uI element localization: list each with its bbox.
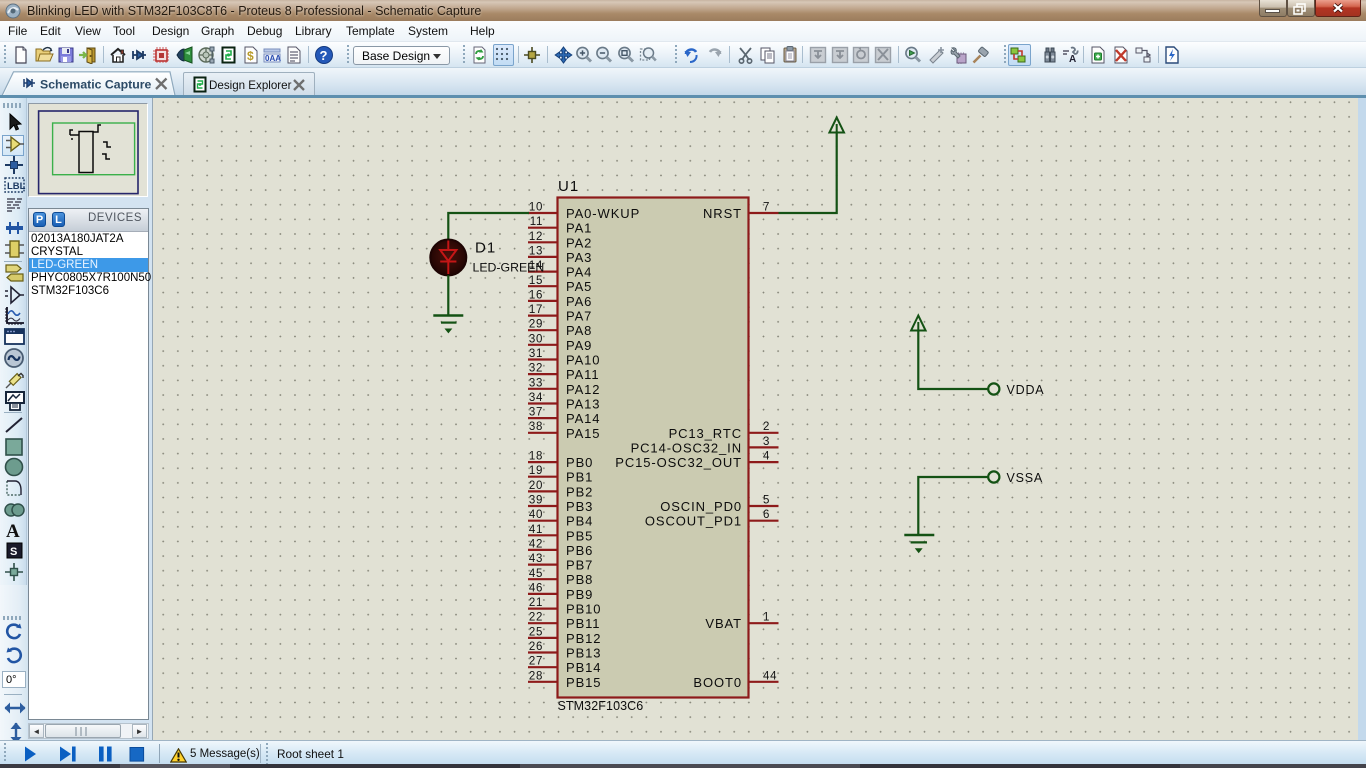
pin 38 PA15 — [528, 421, 600, 441]
svg-text:PA11: PA11 — [566, 367, 599, 382]
pin 43 PB7 — [528, 553, 593, 573]
IC U1 STM32F103C6 body — [558, 198, 749, 698]
svg-text:16: 16 — [529, 289, 543, 301]
svg-text:PA13: PA13 — [566, 397, 600, 412]
svg-text:LED-GREEN: LED-GREEN — [473, 261, 545, 275]
svg-text:PA0-WKUP: PA0-WKUP — [566, 206, 640, 221]
pin 32 PA11 — [528, 363, 599, 383]
pin 39 PB3 — [528, 495, 593, 515]
wire D1 cathode to ground — [447, 275, 449, 315]
IC U1 reference label — [558, 178, 579, 195]
pin 20 PB2 — [528, 480, 593, 500]
svg-text:PB2: PB2 — [566, 484, 593, 499]
svg-text:PB13: PB13 — [566, 646, 601, 661]
svg-text:28: 28 — [529, 670, 543, 682]
pin 37 PA14 — [528, 407, 600, 427]
svg-text:PB0: PB0 — [566, 455, 593, 470]
pin 16 PA6 — [528, 289, 592, 309]
svg-text:$: $ — [247, 49, 254, 63]
svg-text:PA5: PA5 — [566, 279, 592, 294]
svg-text:17: 17 — [529, 304, 543, 316]
svg-text:42: 42 — [529, 538, 543, 550]
pin 41 PB5 — [528, 524, 593, 544]
node label VDDA — [1007, 383, 1045, 397]
LED D1 reference label — [475, 240, 496, 257]
pin 10 PA0-WKUP — [528, 202, 640, 222]
IC U1 value label STM32F103C6 — [558, 699, 644, 713]
svg-text:5: 5 — [763, 495, 770, 507]
svg-text:PA9: PA9 — [566, 338, 592, 353]
pin 11 PA1 — [528, 216, 592, 236]
svg-text:19: 19 — [529, 465, 543, 477]
terminal VSSA — [988, 471, 999, 482]
pin 29 PA8 — [528, 319, 592, 339]
pin 7 NRST — [703, 202, 779, 222]
svg-text:PA6: PA6 — [566, 294, 592, 309]
power symbol at NRST — [829, 118, 844, 133]
svg-text:4: 4 — [763, 451, 770, 463]
svg-text:21: 21 — [529, 597, 543, 609]
svg-text:PB8: PB8 — [566, 572, 593, 587]
pin 31 PA10 — [528, 348, 600, 368]
svg-text:15: 15 — [529, 275, 543, 287]
svg-text:NRST: NRST — [703, 206, 742, 221]
pin 40 PB4 — [528, 509, 593, 529]
svg-text:44: 44 — [763, 670, 777, 682]
LED D1 — [430, 240, 466, 276]
pin 2 PC13_RTC — [669, 421, 779, 441]
svg-text:PB10: PB10 — [566, 602, 601, 617]
svg-text:PB7: PB7 — [566, 558, 593, 573]
wire pin 7 NRST to power symbol — [779, 133, 837, 214]
svg-text:37: 37 — [529, 407, 543, 419]
svg-text:PB6: PB6 — [566, 543, 593, 558]
ground symbol at D1 — [433, 316, 463, 333]
svg-text:41: 41 — [529, 524, 543, 536]
svg-text:A: A — [1069, 54, 1076, 64]
svg-text:PA1: PA1 — [566, 221, 592, 236]
ground symbol at VSSA — [904, 535, 934, 552]
svg-text:PA7: PA7 — [566, 309, 592, 324]
svg-text:22: 22 — [529, 612, 543, 624]
pin 13 PA3 — [528, 245, 592, 265]
pin 42 PB6 — [528, 538, 593, 558]
svg-text:STM32F103C6: STM32F103C6 — [558, 699, 644, 713]
power symbol at VDDA — [911, 316, 926, 331]
pin 46 PB9 — [528, 582, 593, 602]
svg-text:A: A — [6, 521, 20, 541]
svg-text:PC14-OSC32_IN: PC14-OSC32_IN — [631, 440, 742, 455]
svg-text:PC15-OSC32_OUT: PC15-OSC32_OUT — [615, 455, 742, 470]
svg-text:BOOT0: BOOT0 — [693, 675, 742, 690]
svg-text:31: 31 — [529, 348, 543, 360]
svg-text:VDDA: VDDA — [1007, 383, 1045, 397]
svg-text:PA4: PA4 — [566, 265, 592, 280]
svg-text:PB11: PB11 — [566, 616, 600, 631]
svg-text:18: 18 — [529, 451, 543, 463]
wire power symbol to terminal VDDA — [918, 331, 988, 390]
pin 3 PC14-OSC32_IN — [631, 436, 779, 456]
svg-text:Schematic Capture: Schematic Capture — [40, 78, 152, 92]
pin 44 BOOT0 — [693, 670, 778, 690]
pin 6 OSCOUT_PD1 — [645, 509, 779, 529]
wire terminal VSSA to ground — [918, 477, 988, 535]
svg-text:26: 26 — [529, 641, 543, 653]
svg-text:27: 27 — [529, 656, 543, 668]
svg-text:3: 3 — [763, 436, 770, 448]
pin 14 PA4 — [528, 260, 592, 280]
pin 1 VBAT — [705, 612, 778, 632]
svg-text:PA14: PA14 — [566, 411, 600, 426]
svg-text:LBL: LBL — [7, 181, 26, 192]
node label VSSA — [1007, 471, 1044, 485]
pin 15 PA5 — [528, 275, 592, 294]
svg-text:7: 7 — [763, 202, 770, 214]
pin 17 PA7 — [528, 304, 592, 324]
svg-text:?: ? — [320, 48, 328, 63]
pin 19 PB1 — [528, 465, 593, 485]
pin 33 PA12 — [528, 377, 600, 397]
svg-text:VBAT: VBAT — [705, 616, 742, 631]
svg-text:6: 6 — [763, 509, 770, 521]
svg-text:11: 11 — [530, 216, 543, 228]
svg-text:S: S — [10, 546, 17, 558]
svg-text:PA8: PA8 — [566, 323, 592, 338]
svg-text:PB12: PB12 — [566, 631, 601, 646]
svg-text:OSCIN_PD0: OSCIN_PD0 — [660, 499, 742, 514]
svg-text:PB3: PB3 — [566, 499, 593, 514]
pin 26 PB13 — [528, 641, 601, 661]
svg-text:32: 32 — [529, 363, 543, 375]
svg-text:2: 2 — [763, 421, 770, 433]
svg-text:25: 25 — [529, 626, 543, 638]
svg-text:PB14: PB14 — [566, 660, 601, 675]
svg-text:PB5: PB5 — [566, 528, 593, 543]
svg-text:34: 34 — [529, 392, 543, 404]
pin 18 PB0 — [528, 451, 593, 471]
pin 34 PA13 — [528, 392, 600, 412]
svg-text:1: 1 — [763, 612, 770, 624]
svg-text:PA15: PA15 — [566, 426, 600, 441]
pin 27 PB14 — [528, 656, 601, 676]
svg-text:30: 30 — [529, 333, 543, 345]
svg-text:PA3: PA3 — [566, 250, 592, 265]
LED D1 value label LED-GREEN — [473, 261, 545, 275]
pin 21 PB10 — [528, 597, 601, 616]
pin 30 PA9 — [528, 333, 592, 353]
svg-text:45: 45 — [529, 568, 543, 580]
pin 25 PB12 — [528, 626, 601, 646]
svg-text:PB1: PB1 — [566, 470, 593, 485]
svg-text:0AAA: 0AAA — [265, 54, 281, 63]
terminal VDDA — [988, 383, 999, 394]
svg-text:D1: D1 — [475, 240, 496, 257]
pin 22 PB11 — [528, 612, 600, 632]
svg-text:13: 13 — [529, 245, 543, 257]
svg-text:29: 29 — [529, 319, 543, 331]
svg-text:PB9: PB9 — [566, 587, 593, 602]
svg-text:33: 33 — [529, 377, 543, 389]
svg-text:10: 10 — [529, 202, 543, 214]
svg-text:U1: U1 — [558, 178, 579, 195]
pin 45 PB8 — [528, 568, 593, 587]
svg-text:38: 38 — [529, 421, 543, 433]
pin 4 PC15-OSC32_OUT — [615, 451, 778, 471]
svg-text:43: 43 — [529, 553, 543, 565]
pin 28 PB15 — [528, 670, 601, 690]
svg-text:PC13_RTC: PC13_RTC — [669, 426, 742, 441]
svg-text:PB15: PB15 — [566, 675, 601, 690]
svg-text:12: 12 — [529, 231, 543, 243]
svg-text:PA2: PA2 — [566, 235, 592, 250]
pin 12 PA2 — [528, 231, 592, 251]
svg-text:PA10: PA10 — [566, 353, 600, 368]
svg-text:20: 20 — [529, 480, 543, 492]
wire D1 anode to pin 10 PA0-WKUP — [448, 213, 529, 240]
svg-text:39: 39 — [529, 495, 543, 507]
svg-text:40: 40 — [529, 509, 543, 521]
svg-text:OSCOUT_PD1: OSCOUT_PD1 — [645, 514, 742, 529]
svg-text:VSSA: VSSA — [1007, 471, 1044, 485]
svg-text:PB4: PB4 — [566, 514, 593, 529]
pin 5 OSCIN_PD0 — [660, 495, 778, 515]
svg-text:PA12: PA12 — [566, 382, 600, 397]
svg-text:46: 46 — [529, 582, 543, 594]
